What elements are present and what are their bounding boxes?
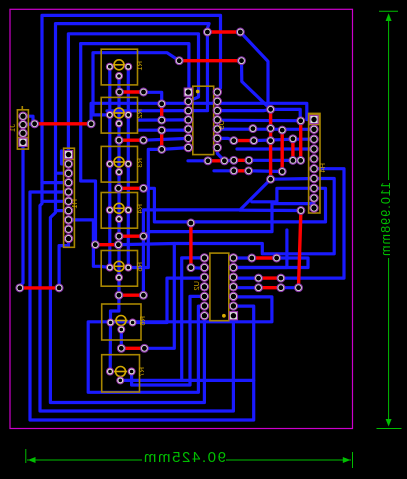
pad R4.w (116, 216, 123, 223)
via v42 (115, 232, 123, 240)
pad U5.R3 (213, 107, 221, 115)
wire U2 right pin2 right vertical up (233, 230, 287, 268)
via v27 (245, 167, 253, 175)
trimpot R2 circle symbol (114, 108, 124, 118)
connector J1 pin4 divider (17, 137, 28, 139)
dimension bottom right arrow (343, 457, 351, 463)
wire via r1 right diag to H4 pin1 (240, 32, 314, 120)
wire red r23 (20, 286, 59, 289)
pad R3.a (106, 160, 113, 167)
wire long line y110.9 to U5 left pin3 (107, 109, 188, 113)
pad H1.7 (64, 207, 72, 215)
pad R6.a (107, 319, 114, 326)
pad U2.R6 (229, 302, 237, 310)
wire U5 right pin5 to H4 pin2 (217, 128, 314, 131)
wire R5 bottom via to R6 left (111, 295, 119, 322)
pad U2.L3 (200, 273, 208, 281)
pad R5.b (125, 264, 132, 271)
via v2 (236, 28, 244, 36)
via v8 (267, 105, 275, 113)
wire bus B1 top nest outer to U5 right pin1 (42, 15, 221, 201)
svg-text:R5: R5 (135, 262, 144, 272)
svg-text:R6: R6 (138, 316, 147, 326)
svg-text:R4: R4 (135, 204, 144, 214)
wire U2 left pin1 to R7 via x182 (182, 258, 205, 381)
via v40 (115, 184, 123, 192)
via v21 (250, 137, 258, 145)
svg-text:R7: R7 (137, 367, 146, 377)
wire via V1 elbow to via V4 (271, 109, 301, 120)
trimpot R1 outline (101, 49, 137, 85)
wire bus B4 to U5 pin1 (81, 44, 189, 92)
pad H4.2 (310, 125, 318, 133)
via mid3 (158, 126, 166, 134)
via mid2 (158, 116, 166, 124)
wire red r9 (234, 139, 254, 142)
pad H4.1 (square) (310, 115, 318, 123)
trimpot R6 circle symbol (116, 316, 126, 326)
wire U2 right pin1 to via r14 (233, 256, 251, 259)
wire H1 pad3 arm (56, 172, 69, 175)
dimension bottom right tick (352, 452, 354, 468)
pad H4.4 (310, 145, 318, 153)
via mid4 (158, 146, 166, 154)
wire bus B1 tee down to bottom nest (40, 201, 233, 411)
wire J1 pad4 down to via r23 (20, 142, 23, 288)
pad R7.a (107, 368, 114, 375)
via v11 (267, 175, 275, 183)
pad U5.L3 (184, 107, 192, 115)
wire red r13 (189, 222, 192, 268)
trimpot R5 circle symbol (114, 261, 124, 271)
wire R1 via to mid via (144, 92, 162, 104)
wire via stub left under U5 (188, 159, 208, 162)
wire red V4 (299, 121, 302, 161)
wire red V2 (281, 130, 284, 172)
wire red r20 R4 (119, 234, 144, 237)
dimension bottom horizontal line right part (226, 459, 351, 461)
wire red r22 R6 (121, 347, 144, 350)
via v20 (230, 137, 238, 145)
pad R2.b (125, 111, 132, 118)
pad U2.R5 (229, 292, 237, 300)
wire mid via to U5 left pin7 (162, 148, 189, 150)
wire H4 pin7 to via V1 bottom (271, 177, 314, 181)
dimension bottom horizontal line left part (27, 459, 142, 461)
pad H4.8 (310, 184, 318, 192)
wire via V1 bottom diag to R5 via (143, 179, 270, 295)
pad U2.L7 (200, 312, 208, 320)
wire U2 left pin3 to R6 right (133, 278, 205, 322)
pad U5.R7 (213, 144, 221, 152)
via v1 (204, 28, 212, 36)
wire U2 right pin6 to bottom nest outer (30, 192, 254, 420)
wire red r1 (207, 30, 240, 33)
wire red r19 R3 (119, 187, 144, 190)
dimension bottom left tick (25, 449, 27, 463)
ic U2 pin1 dot (223, 315, 225, 317)
wire H4 pin8 route (252, 188, 314, 202)
via v12 (278, 126, 286, 134)
pad R1.b (125, 63, 132, 70)
trimpot R7 circle symbol (116, 367, 126, 377)
via v36 (116, 88, 124, 96)
wire U5 right pin4 to via V4 (217, 119, 300, 123)
wire J1 pad2 to via r3 (23, 122, 35, 126)
via mid1 (158, 100, 166, 108)
wire H4 pin7 via x326 to R3 via (144, 188, 326, 222)
dimension right top arrow (386, 13, 392, 21)
wire mid via line y120 to U5 left pin4 (139, 118, 189, 121)
wire bus B2 tee down (50, 211, 204, 403)
wire R column vertical x128.3 (127, 67, 130, 268)
pad J1.3 (19, 129, 27, 137)
via mid6 (115, 241, 123, 249)
via v18 (297, 207, 305, 215)
pad H4.3 (310, 135, 318, 143)
dimension right bottom tick (377, 428, 402, 430)
trimpot R1 circle symbol (114, 60, 124, 70)
via v34 (255, 284, 263, 292)
pad H1.9 (64, 225, 72, 233)
pad J1.1 (19, 112, 27, 120)
trimpot R6 outline (102, 304, 141, 340)
connector H4 pin1 square mark (309, 114, 319, 124)
pad U2.R4 (229, 283, 237, 291)
wire mid via line y130 to U5 left pin5 (139, 129, 189, 132)
via v38 (115, 136, 123, 144)
dimension bottom left arrow (28, 457, 36, 463)
pad U5.R1 (213, 88, 221, 96)
pad R2.a (106, 111, 113, 118)
via v4 (238, 57, 246, 65)
pad U2.L6 (200, 302, 208, 310)
wire via r2 right to U5 area (242, 61, 271, 110)
wire bus B5 h5 line (93, 53, 179, 115)
pad H1.3 (64, 169, 72, 177)
pad R3.b (125, 160, 132, 167)
pad J1.4 (square) (19, 138, 27, 146)
wire via row y160 long link (249, 159, 293, 162)
wire via r1 left vertical to U5 left pin3 (188, 32, 207, 111)
board outline (10, 9, 353, 428)
wire H1 pad10 down to via r23 right (59, 239, 68, 288)
via v24 (230, 156, 238, 164)
wire R6 left to R7 left (109, 323, 113, 372)
wire red V5 (299, 211, 301, 288)
trimpot R5 outline (101, 251, 137, 287)
via v13 (278, 168, 286, 176)
via v49 (55, 284, 63, 292)
wire red r16 (259, 286, 281, 289)
via v46 (117, 344, 125, 352)
pad R3.w (116, 169, 123, 176)
via v14 (289, 135, 297, 143)
wire red V3 (291, 139, 294, 161)
wire via row y140 to H4 pin3 (254, 139, 315, 140)
wire H1 pad7 arm (56, 209, 69, 212)
pad H1.1 (square) (64, 151, 72, 159)
wire red r11 (234, 159, 249, 162)
wire red r18 R2 (119, 138, 144, 141)
pad H1.8 (64, 216, 72, 224)
svg-text:U5: U5 (217, 120, 226, 130)
pad U5.1 (square) (184, 88, 192, 96)
via v41 (140, 184, 148, 192)
via v39 (140, 136, 148, 144)
wire R column vertical x119 (117, 76, 120, 295)
pad U2.L1 (200, 254, 208, 262)
wire red V1 (269, 109, 272, 179)
wire red r14 (252, 256, 277, 259)
dimension right vertical line upper (388, 19, 390, 180)
dimension right bottom arrow (386, 419, 392, 427)
wire U2 right pin5 bracket route (88, 297, 272, 392)
svg-text:H1: H1 (70, 199, 79, 209)
via mid5 (91, 241, 99, 249)
via v23 (221, 157, 229, 165)
via v47 (141, 344, 149, 352)
pad U5.R5 (213, 125, 221, 133)
wire via row y160 middle link (224, 159, 233, 163)
wire J1 pad1 to via r3 (23, 116, 35, 124)
wire H4 pin5 route to via pair (118, 179, 334, 254)
dimension right top tick (379, 10, 398, 12)
ic U5 pin1 dot (197, 90, 199, 92)
pad H1.2 (64, 160, 72, 168)
svg-text:U2: U2 (192, 281, 201, 291)
wire via r16 to via V5 bottom (281, 286, 299, 289)
wire via V5 top stub (240, 209, 301, 213)
wire red r12 (234, 169, 249, 172)
pad U5.R4 (213, 116, 221, 124)
pad U5.L7 (184, 144, 192, 152)
trimpot R3 outline (101, 146, 137, 182)
pad H1.4 (64, 179, 72, 187)
wire H4 pin6 to U2 right pin3 route (281, 169, 344, 278)
pad R6.b (129, 319, 136, 326)
wire U5 right pin3 to via V1 top area (217, 109, 270, 110)
wire H1 pad6 arm (42, 200, 69, 203)
wire U5 right pin7 to via (217, 148, 224, 161)
trimpot symbol circles (113, 60, 225, 377)
pad U2.L2 (200, 263, 208, 271)
trimpot R4 circle symbol (114, 203, 124, 213)
via v3 (175, 57, 183, 65)
pad H1.10 (64, 235, 72, 243)
svg-text:R3: R3 (135, 158, 144, 168)
trimpot R3 circle symbol (114, 157, 124, 167)
pad U2.L4 (200, 283, 208, 291)
wire U2 left pin5 to R7 left (132, 296, 205, 385)
wire red left pair y244.7 (95, 243, 118, 246)
svg-text:R2: R2 (135, 109, 144, 119)
dimension right vertical line lower (388, 258, 390, 421)
connector H1 outline (64, 148, 75, 247)
pad U5.L2 (184, 97, 192, 105)
svg-text:110.998mm: 110.998mm (379, 182, 393, 257)
pad U5.R2 (213, 97, 221, 105)
pad U2.L5 (200, 292, 208, 300)
pad U5.R6 (213, 134, 221, 142)
wire red r10 (208, 159, 225, 162)
pad U2.1 (square) (229, 312, 237, 320)
trimpot R7 outline (102, 355, 140, 392)
ic U2 outline (210, 253, 229, 321)
ic U5 outline (193, 86, 214, 154)
pad J1.2 (19, 121, 27, 129)
wire via (91,124) up and right to via (300.7,120.8) is U5R2 line (91, 103, 268, 124)
via v25 (245, 156, 253, 164)
via v28 (187, 219, 195, 227)
wire via r14 right U-turn to U2 right pin2 (233, 258, 308, 268)
connector J1 pin1 tick (21, 106, 23, 110)
wire R7 center pad tee line (120, 379, 253, 382)
pad U5.L5 (184, 125, 192, 133)
pad R6.w (118, 326, 125, 333)
wire mid via down to R5 right (128, 149, 161, 267)
wire R2 via to U5 left pin6 (144, 138, 189, 140)
pad R5.w (116, 274, 123, 281)
wire via row y170 left stub (214, 169, 234, 172)
pad R5.a (106, 264, 113, 271)
pad R7.b (128, 368, 135, 375)
pad R1.w (116, 73, 123, 80)
connector H1 pin1 divider (64, 158, 75, 160)
wire red r15 (259, 276, 281, 279)
via v5 (31, 120, 39, 128)
via v22 (204, 157, 212, 165)
wire via V2 bottom to via row y170 (249, 169, 283, 173)
wire R4 via to H4 pin9 route (144, 198, 314, 236)
pad H1.5 (64, 188, 72, 196)
wire red r2 (179, 59, 241, 62)
wire H1 pad8 to R5 left (69, 220, 110, 268)
via v32 (255, 274, 263, 282)
pad U5.L6 (184, 134, 192, 142)
wire R6 bottom pad to via r22 (120, 330, 123, 349)
svg-text:J1: J1 (8, 124, 17, 132)
pad U2.R3 (229, 273, 237, 281)
svg-text:R1: R1 (135, 61, 144, 71)
via v45 (140, 291, 148, 299)
trimpot R2 outline (101, 97, 137, 133)
connector J1 outline (17, 110, 28, 149)
via v10 (267, 137, 275, 145)
pad R7.w (117, 377, 124, 384)
wire H1 pad4 arm (42, 181, 69, 184)
wire bus B5 tee down to H1 pad8 route and via pair (81, 44, 96, 245)
trimpot R4 outline (101, 193, 137, 229)
via v17 (297, 157, 305, 165)
pad H4.9 (310, 194, 318, 202)
wire H1 pad2 stub (62, 151, 69, 164)
wire bus B2 to via r1 left (56, 24, 210, 211)
via v30 (248, 254, 256, 262)
via v48 (16, 284, 24, 292)
pad R2.w (116, 120, 123, 127)
via v15 (289, 157, 297, 165)
pad R4.b (125, 207, 132, 214)
pad U5.L4 (184, 116, 192, 124)
via v6 (87, 120, 95, 128)
wire H4 pin4 line (237, 147, 314, 150)
wire bus B3 to U5 left pin2 (68, 34, 198, 155)
via v19 (295, 284, 303, 292)
wire U2 right pin3 to via r15 (233, 277, 258, 280)
wire R column vertical x109.8 (108, 67, 111, 268)
pad H4.10 (310, 204, 318, 212)
pad U2.R1 (229, 254, 237, 262)
via v7 (249, 125, 257, 133)
via v26 (230, 167, 238, 175)
wire U2 right pin4 to via r16 (233, 286, 258, 289)
wire red r21 R5 (119, 294, 143, 297)
wire red mid column upper (160, 104, 163, 120)
wire tee down to R6 via (144, 244, 174, 349)
pad R4.a (106, 207, 113, 214)
wire red r17 R1 (120, 90, 144, 93)
connector H4 outline (309, 113, 320, 213)
svg-text:90.425mm: 90.425mm (142, 449, 226, 466)
pad H4.7 (310, 174, 318, 182)
pad U2.R2 (229, 263, 237, 271)
pad R1.a (106, 63, 113, 70)
wire red mid column lower (160, 130, 163, 149)
wire red r3 (35, 122, 92, 125)
via v44 (115, 291, 123, 299)
via v33 (277, 274, 285, 282)
pad H4.6 (310, 165, 318, 173)
pad H1.6 (64, 197, 72, 205)
via v35 (277, 284, 285, 292)
via v37 (140, 88, 148, 96)
via v9 (267, 124, 275, 132)
via v31 (273, 254, 281, 262)
via v16 (297, 117, 305, 125)
wire U5 right pin6 stub to via (217, 138, 234, 140)
pad H4.5 (310, 155, 318, 163)
via v43 (140, 232, 148, 240)
svg-text:H4: H4 (318, 163, 327, 173)
wire via r13 bottom to U2 left pin2 (191, 266, 205, 270)
via v29 (187, 264, 195, 272)
